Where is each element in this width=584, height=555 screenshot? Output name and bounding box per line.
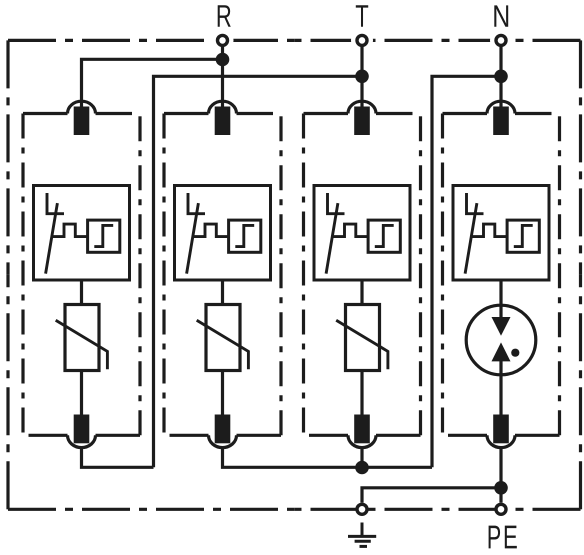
terminal PE circle <box>496 504 506 514</box>
protection module 4 dashed enclosure <box>443 114 560 436</box>
U4 trip linkage (step line) <box>471 224 507 237</box>
module 2 top contact rail with socket arc <box>164 101 273 113</box>
thermal disconnector U1 box <box>34 186 130 281</box>
varistor MOV2 body <box>206 305 240 371</box>
terminal T circle <box>357 35 367 45</box>
module 1 bottom contact rail with socket arc <box>29 435 141 447</box>
U4 status indicator box <box>507 220 539 252</box>
module 2 top plug contact pin <box>215 107 231 136</box>
module 1 top contact rail with socket arc <box>23 101 132 113</box>
thermal disconnector U3 box <box>314 186 410 281</box>
wire: module 4 bottom to PE terminal <box>499 448 502 503</box>
wire: MOV3 to bottom contact <box>360 371 363 415</box>
U1 switch blade <box>46 203 58 274</box>
U1 fixed contact lead <box>47 193 64 214</box>
wire: terminal N down to module 4 <box>499 44 502 107</box>
spark gap F4 electrode lead (top) <box>499 305 502 318</box>
wire: module 2 bottom to N riser <box>223 448 433 467</box>
module 3 top plug contact pin <box>354 107 370 136</box>
U3 switch blade <box>326 203 338 274</box>
module 3 bottom plug contact pin <box>354 415 370 444</box>
varistor MOV2 diagonal stroke <box>197 320 249 369</box>
U3 fixed contact lead <box>328 193 345 214</box>
wire: U2 to varistor MOV2 <box>221 280 224 305</box>
wire: terminal R down to module 2 <box>221 44 224 107</box>
junction dot node R <box>216 53 230 67</box>
gap mask for terminal circles on border <box>212 29 513 51</box>
module 2 bottom plug contact pin <box>215 415 231 444</box>
label PE <box>489 526 517 549</box>
module 1 bottom plug contact pin <box>74 415 90 444</box>
earth terminal circle <box>357 504 367 514</box>
U3 trip linkage (step line) <box>332 224 368 237</box>
spark gap F4 lower triangle <box>492 342 511 361</box>
terminal R circle <box>218 35 228 45</box>
wire: MOV2 to bottom contact <box>221 371 224 415</box>
protection module 2 dashed enclosure <box>164 114 281 436</box>
junction dot module 3 / N net <box>355 461 369 475</box>
module 4 top plug contact pin <box>493 107 509 136</box>
U1 indicator step symbol <box>94 225 113 246</box>
wire: PE net to earth terminal <box>362 488 501 503</box>
wire: module 1 bottom to T riser <box>82 448 154 467</box>
module 2 bottom contact rail with socket arc <box>170 435 282 447</box>
wire: node R to module 1 (horizontal + drop) <box>82 59 223 106</box>
spark gap F4 trigger dot <box>511 349 519 357</box>
wire: U1 to varistor MOV1 <box>80 280 83 305</box>
ground symbol <box>348 523 376 547</box>
U2 trip linkage (step line) <box>193 224 229 237</box>
varistor MOV3 diagonal stroke <box>336 320 388 369</box>
U4 switch blade <box>465 203 477 274</box>
wire: module 3 bottom drop <box>360 448 363 467</box>
wire: U3 to varistor MOV3 <box>360 280 363 305</box>
label N <box>494 5 508 26</box>
U3 indicator step symbol <box>375 225 394 246</box>
module 4 bottom plug contact pin <box>493 415 509 444</box>
U4 indicator step symbol <box>514 225 533 246</box>
U2 fixed contact lead <box>188 193 205 214</box>
wire: node N to left riser <box>432 76 501 467</box>
module 3 bottom contact rail with socket arc <box>309 435 421 447</box>
thermal disconnector U4 box <box>453 186 549 281</box>
U4 fixed contact lead <box>467 193 484 214</box>
label R <box>218 5 231 27</box>
junction dot PE net <box>494 481 508 495</box>
U2 indicator step symbol <box>235 225 254 246</box>
U2 status indicator box <box>229 220 261 252</box>
U3 status indicator box <box>368 220 400 252</box>
wire: U4 to spark gap F4 <box>499 280 502 305</box>
wire: F4 to bottom contact <box>499 370 502 415</box>
junction dot node N <box>494 70 508 84</box>
module 3 top contact rail with socket arc <box>304 101 413 113</box>
varistor MOV1 body <box>65 305 99 371</box>
varistor MOV1 diagonal stroke <box>56 320 108 369</box>
thermal disconnector U2 box <box>175 186 271 281</box>
label T <box>356 5 368 27</box>
protection module 1 dashed enclosure <box>23 114 140 436</box>
U1 trip linkage (step line) <box>52 224 88 237</box>
terminal N circle <box>496 35 506 45</box>
wire: node T to left riser <box>154 76 363 467</box>
U2 switch blade <box>187 203 199 274</box>
module 4 top contact rail with socket arc <box>443 101 552 113</box>
junction dot node T <box>355 70 369 84</box>
module 1 top plug contact pin <box>74 107 90 136</box>
wire: terminal T down to module 3 <box>360 44 363 107</box>
spark gap F4 circle <box>466 305 536 375</box>
spark gap F4 upper triangle <box>492 317 511 336</box>
spark gap F4 electrode lead (bottom) <box>499 361 502 371</box>
protection module 3 dashed enclosure <box>304 114 421 436</box>
U1 status indicator box <box>88 220 120 252</box>
varistor MOV3 body <box>346 305 380 371</box>
module 4 bottom contact rail with socket arc <box>448 435 560 447</box>
wire: MOV1 to bottom contact <box>80 371 83 415</box>
